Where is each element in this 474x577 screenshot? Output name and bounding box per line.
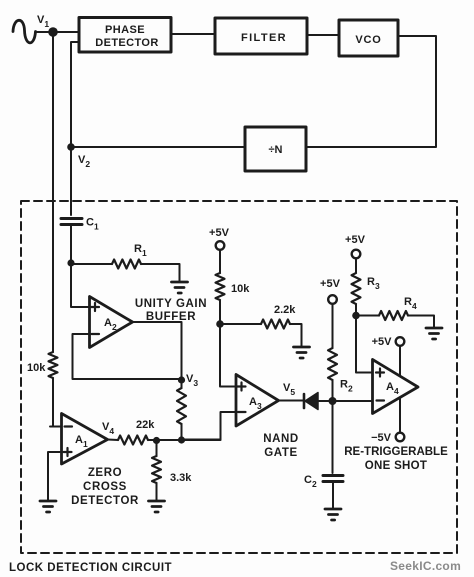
wire node down to C2 [332, 401, 334, 473]
svg-text:LOCK DETECTION CIRCUIT: LOCK DETECTION CIRCUIT [9, 562, 172, 574]
op-amp A3 [236, 375, 279, 427]
supply terminal +5V (A4 power) [396, 337, 405, 346]
svg-text:VCO: VCO [355, 34, 381, 46]
svg-text:3.3k: 3.3k [170, 472, 192, 484]
svg-text:V5: V5 [283, 382, 295, 397]
wire node V1 down left rail [52, 32, 54, 352]
wire V3 to resistor [181, 380, 183, 388]
box filter U2 [215, 18, 307, 54]
wire +5V to R2 [332, 304, 334, 348]
wire node to R4 [356, 315, 379, 317]
wire divider to node V2 [71, 146, 245, 148]
wire node V2 down to capacitor C1 [70, 147, 72, 215]
svg-text:+5V: +5V [345, 234, 366, 246]
wire source to node V1 [36, 31, 52, 33]
wire node down to A3 plus input [220, 324, 236, 387]
resistor 10k (left rail) [49, 352, 58, 378]
svg-text:+5V: +5V [372, 336, 393, 348]
ground (R4) [426, 328, 442, 339]
wire +5V to A4 top [399, 346, 401, 376]
wire A3 minus input to summing node [182, 412, 237, 440]
wire node V1 to phase detector [53, 31, 79, 33]
ground (2.2k) [294, 347, 310, 358]
node 22k/3.3k junction dot [153, 437, 160, 444]
ground (R1) [172, 282, 188, 293]
wire phase detector to filter [171, 33, 215, 35]
op-amp A1 [62, 414, 108, 465]
svg-text:+5V: +5V [320, 278, 341, 290]
supply terminal -5V (A4 power) [396, 433, 405, 442]
resistor R1 [112, 260, 141, 269]
node C1/R1/A2 junction dot [67, 259, 74, 266]
supply terminal +5V (10k pull-up) [216, 241, 225, 250]
node V1 junction dot [48, 27, 58, 37]
svg-text:NAND: NAND [263, 433, 299, 445]
svg-text:−5V: −5V [371, 432, 392, 444]
svg-text:R3: R3 [367, 276, 380, 291]
supply terminal +5V (R2) [328, 295, 337, 304]
capacitor C1 [61, 219, 82, 225]
wire 3.3k to ground [156, 483, 158, 500]
wire A4 bottom to -5V [399, 398, 401, 433]
box divider-by-N U4 [245, 127, 306, 171]
svg-text:SeekIC.com: SeekIC.com [390, 559, 461, 573]
node V3-resistor/wire junction dot [178, 436, 185, 443]
svg-text:R4: R4 [404, 296, 417, 311]
svg-text:FILTER: FILTER [241, 32, 287, 44]
svg-text:GATE: GATE [264, 447, 298, 459]
wire A2 output to node V3 [133, 322, 182, 380]
wire C1 to junction [70, 225, 72, 264]
resistor R3 [352, 273, 361, 304]
svg-text:+5V: +5V [209, 227, 230, 239]
node diode/R2/C2/A4 junction dot [329, 397, 337, 405]
wire +5V to R3 [355, 259, 357, 274]
resistor 3.3k [152, 456, 161, 483]
node V3 junction dot [178, 376, 185, 383]
svg-text:÷N: ÷N [269, 144, 283, 156]
ground (C2) [325, 509, 341, 520]
wire C2 to ground [332, 482, 334, 509]
wire junction to R1 [71, 263, 112, 265]
resistor 2.2k [261, 320, 290, 329]
svg-text:V2: V2 [78, 154, 90, 169]
wire A3 output to diode [279, 400, 304, 402]
node 10k/2.2k junction dot [216, 320, 224, 328]
svg-text:C2: C2 [304, 474, 317, 489]
svg-text:C1: C1 [86, 217, 99, 232]
resistor R2 [328, 348, 337, 380]
capacitor C2 [323, 476, 343, 482]
node R3/R4 junction dot [352, 312, 360, 320]
wire R3 to node [355, 304, 357, 316]
ground (A1) [40, 501, 56, 512]
svg-text:PHASE: PHASE [105, 24, 145, 36]
resistor 22k [118, 436, 148, 445]
svg-text:22k: 22k [136, 419, 155, 431]
wire node to A4 minus input [333, 400, 373, 402]
svg-text:DETECTOR: DETECTOR [95, 37, 159, 49]
wire R4 to ground [408, 316, 434, 328]
svg-text:BUFFER: BUFFER [146, 311, 196, 323]
svg-text:2.2k: 2.2k [274, 304, 296, 316]
diode D1 [303, 394, 306, 408]
op-amp A4 [373, 360, 419, 414]
svg-text:R2: R2 [340, 379, 353, 394]
svg-text:V4: V4 [102, 421, 114, 436]
wire A1 output to 22k [108, 439, 119, 442]
svg-text:CROSS: CROSS [83, 481, 127, 493]
svg-text:10k: 10k [27, 362, 46, 374]
svg-text:V1: V1 [37, 14, 49, 29]
svg-text:10k: 10k [231, 283, 250, 295]
resistor 10k (pull-up) [216, 273, 225, 300]
dashed boundary of lock detection circuit [21, 201, 457, 553]
svg-text:ONE SHOT: ONE SHOT [365, 460, 427, 472]
wire R2 to node [332, 380, 334, 401]
svg-text:ZERO: ZERO [88, 467, 122, 479]
wire node V2 up to phase detector input [71, 42, 79, 147]
wire 10k to node [219, 300, 221, 324]
box phase detector U1 [79, 18, 171, 53]
resistor V3 to summing node [177, 388, 186, 424]
resistor R4 [379, 311, 408, 320]
svg-text:V3: V3 [186, 373, 198, 388]
wire +5V to 10k [219, 250, 221, 273]
op-amp A2 [90, 297, 133, 348]
wire 22k to node [148, 439, 221, 441]
box VCO U3 [339, 20, 398, 56]
wire junction to 3.3k [156, 441, 158, 457]
svg-text:DETECTOR: DETECTOR [71, 495, 139, 507]
wire junction down to A2 plus input [71, 263, 90, 307]
wire resistor bottom to node [181, 424, 183, 440]
ground (3.3k) [149, 501, 165, 512]
svg-text:R1: R1 [134, 243, 147, 258]
wire filter to VCO [307, 34, 339, 36]
node V2 junction dot [67, 143, 75, 151]
wire 2.2k to ground [290, 324, 302, 346]
wire node to 2.2k [220, 323, 261, 325]
wire diode to node [318, 400, 333, 402]
wire R3/R4 node down to A4 plus input [356, 316, 373, 373]
svg-text:UNITY GAIN: UNITY GAIN [135, 298, 207, 310]
wire R1 to ground [141, 264, 180, 281]
svg-text:RE-TRIGGERABLE: RE-TRIGGERABLE [344, 446, 448, 458]
wire A1 plus input to ground [48, 452, 62, 500]
AC source V1 [13, 20, 36, 43]
wire VCO output to divider [306, 36, 436, 147]
supply terminal +5V (R3) [352, 250, 361, 259]
wire feedback node V3 to A2 minus input [73, 334, 182, 379]
wire 10k to A1 minus input [50, 378, 62, 427]
